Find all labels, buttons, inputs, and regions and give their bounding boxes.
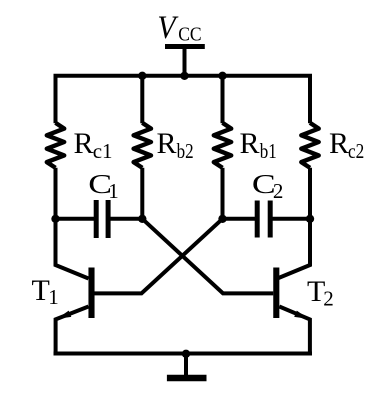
svg-text:c1: c1: [93, 139, 113, 163]
svg-text:1: 1: [48, 285, 59, 309]
svg-text:V: V: [157, 9, 179, 46]
svg-text:c2: c2: [348, 139, 364, 163]
svg-text:CC: CC: [178, 24, 201, 46]
svg-text:R: R: [240, 127, 260, 160]
svg-text:R: R: [74, 127, 94, 160]
svg-text:b2: b2: [177, 139, 194, 163]
svg-text:1: 1: [108, 179, 119, 203]
svg-text:T: T: [32, 274, 50, 307]
svg-text:R: R: [329, 127, 349, 160]
svg-text:b1: b1: [260, 139, 277, 163]
svg-text:R: R: [157, 127, 177, 160]
svg-text:2: 2: [323, 287, 334, 311]
svg-text:2: 2: [273, 179, 284, 203]
